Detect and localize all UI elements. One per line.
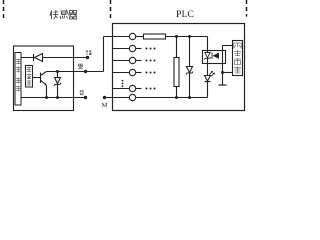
indicator LED chain <box>207 64 209 76</box>
junction dot zener/bus <box>56 96 59 99</box>
sensor box <box>14 46 74 111</box>
wire row1 corner down to optocoupler <box>207 37 209 51</box>
vertical ellipsis (more channels) <box>122 80 124 87</box>
感 <box>60 10 69 19</box>
dashed boundary middle <box>110 0 112 21</box>
input row M (common) <box>129 94 135 100</box>
junction dots on common bus <box>175 96 178 99</box>
block: photo element (vertical rect with text) <box>15 53 21 106</box>
dashed boundary right <box>246 0 248 17</box>
wire: top (+V brown) <box>21 57 88 59</box>
optocoupler U1 box <box>203 51 226 64</box>
器 <box>69 11 77 20</box>
input row 1: wire into PLC <box>104 36 130 38</box>
wire: bottom (blue 0V) <box>21 97 86 99</box>
transistor Q1 <box>40 73 42 84</box>
PLC outer box <box>113 24 245 111</box>
junction dots row1 <box>175 35 178 38</box>
label 传感器 (sensor) glyph strokes <box>50 10 77 19</box>
svg-text:PLC: PLC <box>176 9 194 20</box>
opto photodiode (right, pointing left, filled) <box>211 53 213 60</box>
input row 2 <box>113 48 130 50</box>
terminal circle row 1 <box>129 33 135 39</box>
junction dot at zener top <box>56 70 59 73</box>
emitter drop wire <box>46 86 48 98</box>
terminal dot M (left of PLC) <box>103 96 106 99</box>
output bottom wire to internal circuit <box>223 72 233 74</box>
terminal dot bottom wire <box>84 96 87 99</box>
terminal dot middle wire <box>84 70 87 73</box>
input row 4 <box>113 72 130 74</box>
opto LED (left, pointing down) <box>207 51 209 53</box>
zener diode Z1 <box>57 72 59 98</box>
junction dot output <box>221 71 224 74</box>
wire M into PLC <box>105 97 130 99</box>
opto output vertical <box>222 46 224 86</box>
label brown (棕) <box>86 51 92 56</box>
input row 5 <box>113 88 130 90</box>
resistor R2 (vertical, filter) <box>176 37 178 58</box>
dashed boundary left <box>3 0 5 20</box>
传 <box>50 10 59 19</box>
diode D1 on top wire <box>33 54 35 61</box>
label black (黑) <box>78 64 83 69</box>
terminal dot top wire <box>86 56 89 59</box>
LED emission arrows <box>209 71 214 76</box>
wire <box>136 36 144 38</box>
svg-text:M: M <box>102 102 108 109</box>
wire <box>166 36 208 38</box>
block: amplifier (rect with text) <box>26 66 33 88</box>
common stub bar <box>219 84 227 86</box>
junction dot emitter/bus <box>45 96 48 99</box>
wire: amplifier to transistor base <box>33 77 41 79</box>
zener diode D2 (clamp) <box>189 37 191 67</box>
label blue (蓝) <box>80 90 85 95</box>
resistor R1 (input) <box>144 34 166 39</box>
input row 3 <box>113 60 130 62</box>
wire: middle (black signal) from collector to riser <box>47 71 104 73</box>
riser wire to PLC row 1 <box>103 37 105 72</box>
output top wire to internal circuit <box>223 45 233 47</box>
internal circuit block (内部电路) <box>233 41 243 76</box>
